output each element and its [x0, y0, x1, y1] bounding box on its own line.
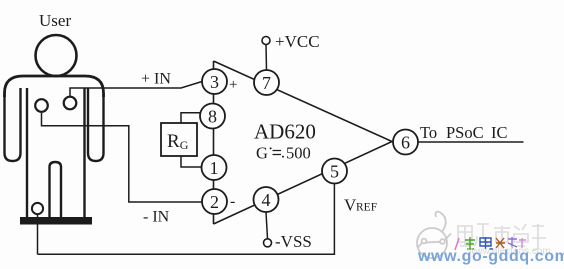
svg-text:3: 3	[210, 72, 219, 92]
svg-text:ToPSoCIC: ToPSoCIC	[420, 123, 508, 142]
pin 3	[202, 69, 227, 94]
svg-text:+: +	[229, 77, 237, 93]
svg-text:AD620: AD620	[254, 120, 316, 144]
svg-text:7: 7	[262, 73, 271, 93]
wire +VCC to pin 7	[265, 45, 268, 71]
wire -IN from E2 to pin 2	[42, 112, 203, 202]
user torso left edge	[26, 88, 28, 218]
op-amp U1 triangle AD620	[214, 61, 393, 224]
svg-text:+VCC: +VCC	[275, 32, 320, 51]
label VREF	[344, 196, 377, 215]
watermark logo circle	[417, 212, 451, 258]
wire pin 4 to -VSS	[266, 212, 268, 239]
watermark colored chinese characters	[455, 237, 526, 250]
wire RG top to pin 8	[181, 113, 201, 123]
user torso right edge	[83, 88, 85, 218]
svg-text:G: G	[256, 144, 268, 163]
resistor RG box	[161, 123, 197, 156]
user hem bar	[21, 218, 91, 224]
watermark gray chinese characters	[458, 224, 546, 250]
svg-text:-: -	[230, 193, 235, 210]
pin 7	[254, 70, 279, 95]
pin 6	[393, 130, 418, 155]
svg-text:6: 6	[401, 133, 410, 153]
terminal -VSS	[264, 239, 272, 247]
user head	[36, 35, 77, 76]
terminal +VCC	[262, 37, 270, 45]
svg-text:5: 5	[330, 162, 339, 182]
pin 1	[202, 155, 227, 180]
svg-text:8: 8	[208, 107, 217, 127]
svg-text:User: User	[39, 11, 71, 30]
pin 5	[322, 159, 347, 184]
user left arm	[5, 88, 21, 161]
electrode E2 (left chest, -IN)	[35, 99, 48, 112]
pin 4	[254, 187, 279, 212]
svg-text:REF: REF	[356, 202, 377, 214]
user leg slot	[50, 162, 62, 219]
wire output from pin 6	[418, 141, 524, 143]
svg-text:1: 1	[210, 158, 219, 178]
pin 2	[202, 189, 227, 214]
electrode E3 (foot, reference)	[32, 203, 43, 214]
svg-text:4: 4	[262, 190, 271, 210]
user shoulders	[5, 76, 104, 97]
wire RG bottom to pin 1	[181, 156, 201, 167]
label G = 500 (approx equal)	[256, 144, 311, 163]
svg-text:2: 2	[210, 192, 219, 212]
pin 8	[200, 104, 225, 129]
svg-text:+ IN: + IN	[141, 71, 171, 88]
electrode E1 (right chest, +IN)	[64, 97, 77, 110]
wire bottom rail to VREF node	[38, 184, 335, 255]
wire from E3 to bottom rail	[37, 214, 39, 254]
svg-text:www.go-gddq.com: www.go-gddq.com	[417, 248, 564, 265]
wire +IN from E1 to pin 3	[70, 82, 202, 97]
svg-text:-VSS: -VSS	[275, 232, 312, 251]
svg-text:- IN: - IN	[143, 209, 170, 226]
user right arm	[88, 88, 104, 161]
svg-text:500: 500	[286, 144, 311, 163]
